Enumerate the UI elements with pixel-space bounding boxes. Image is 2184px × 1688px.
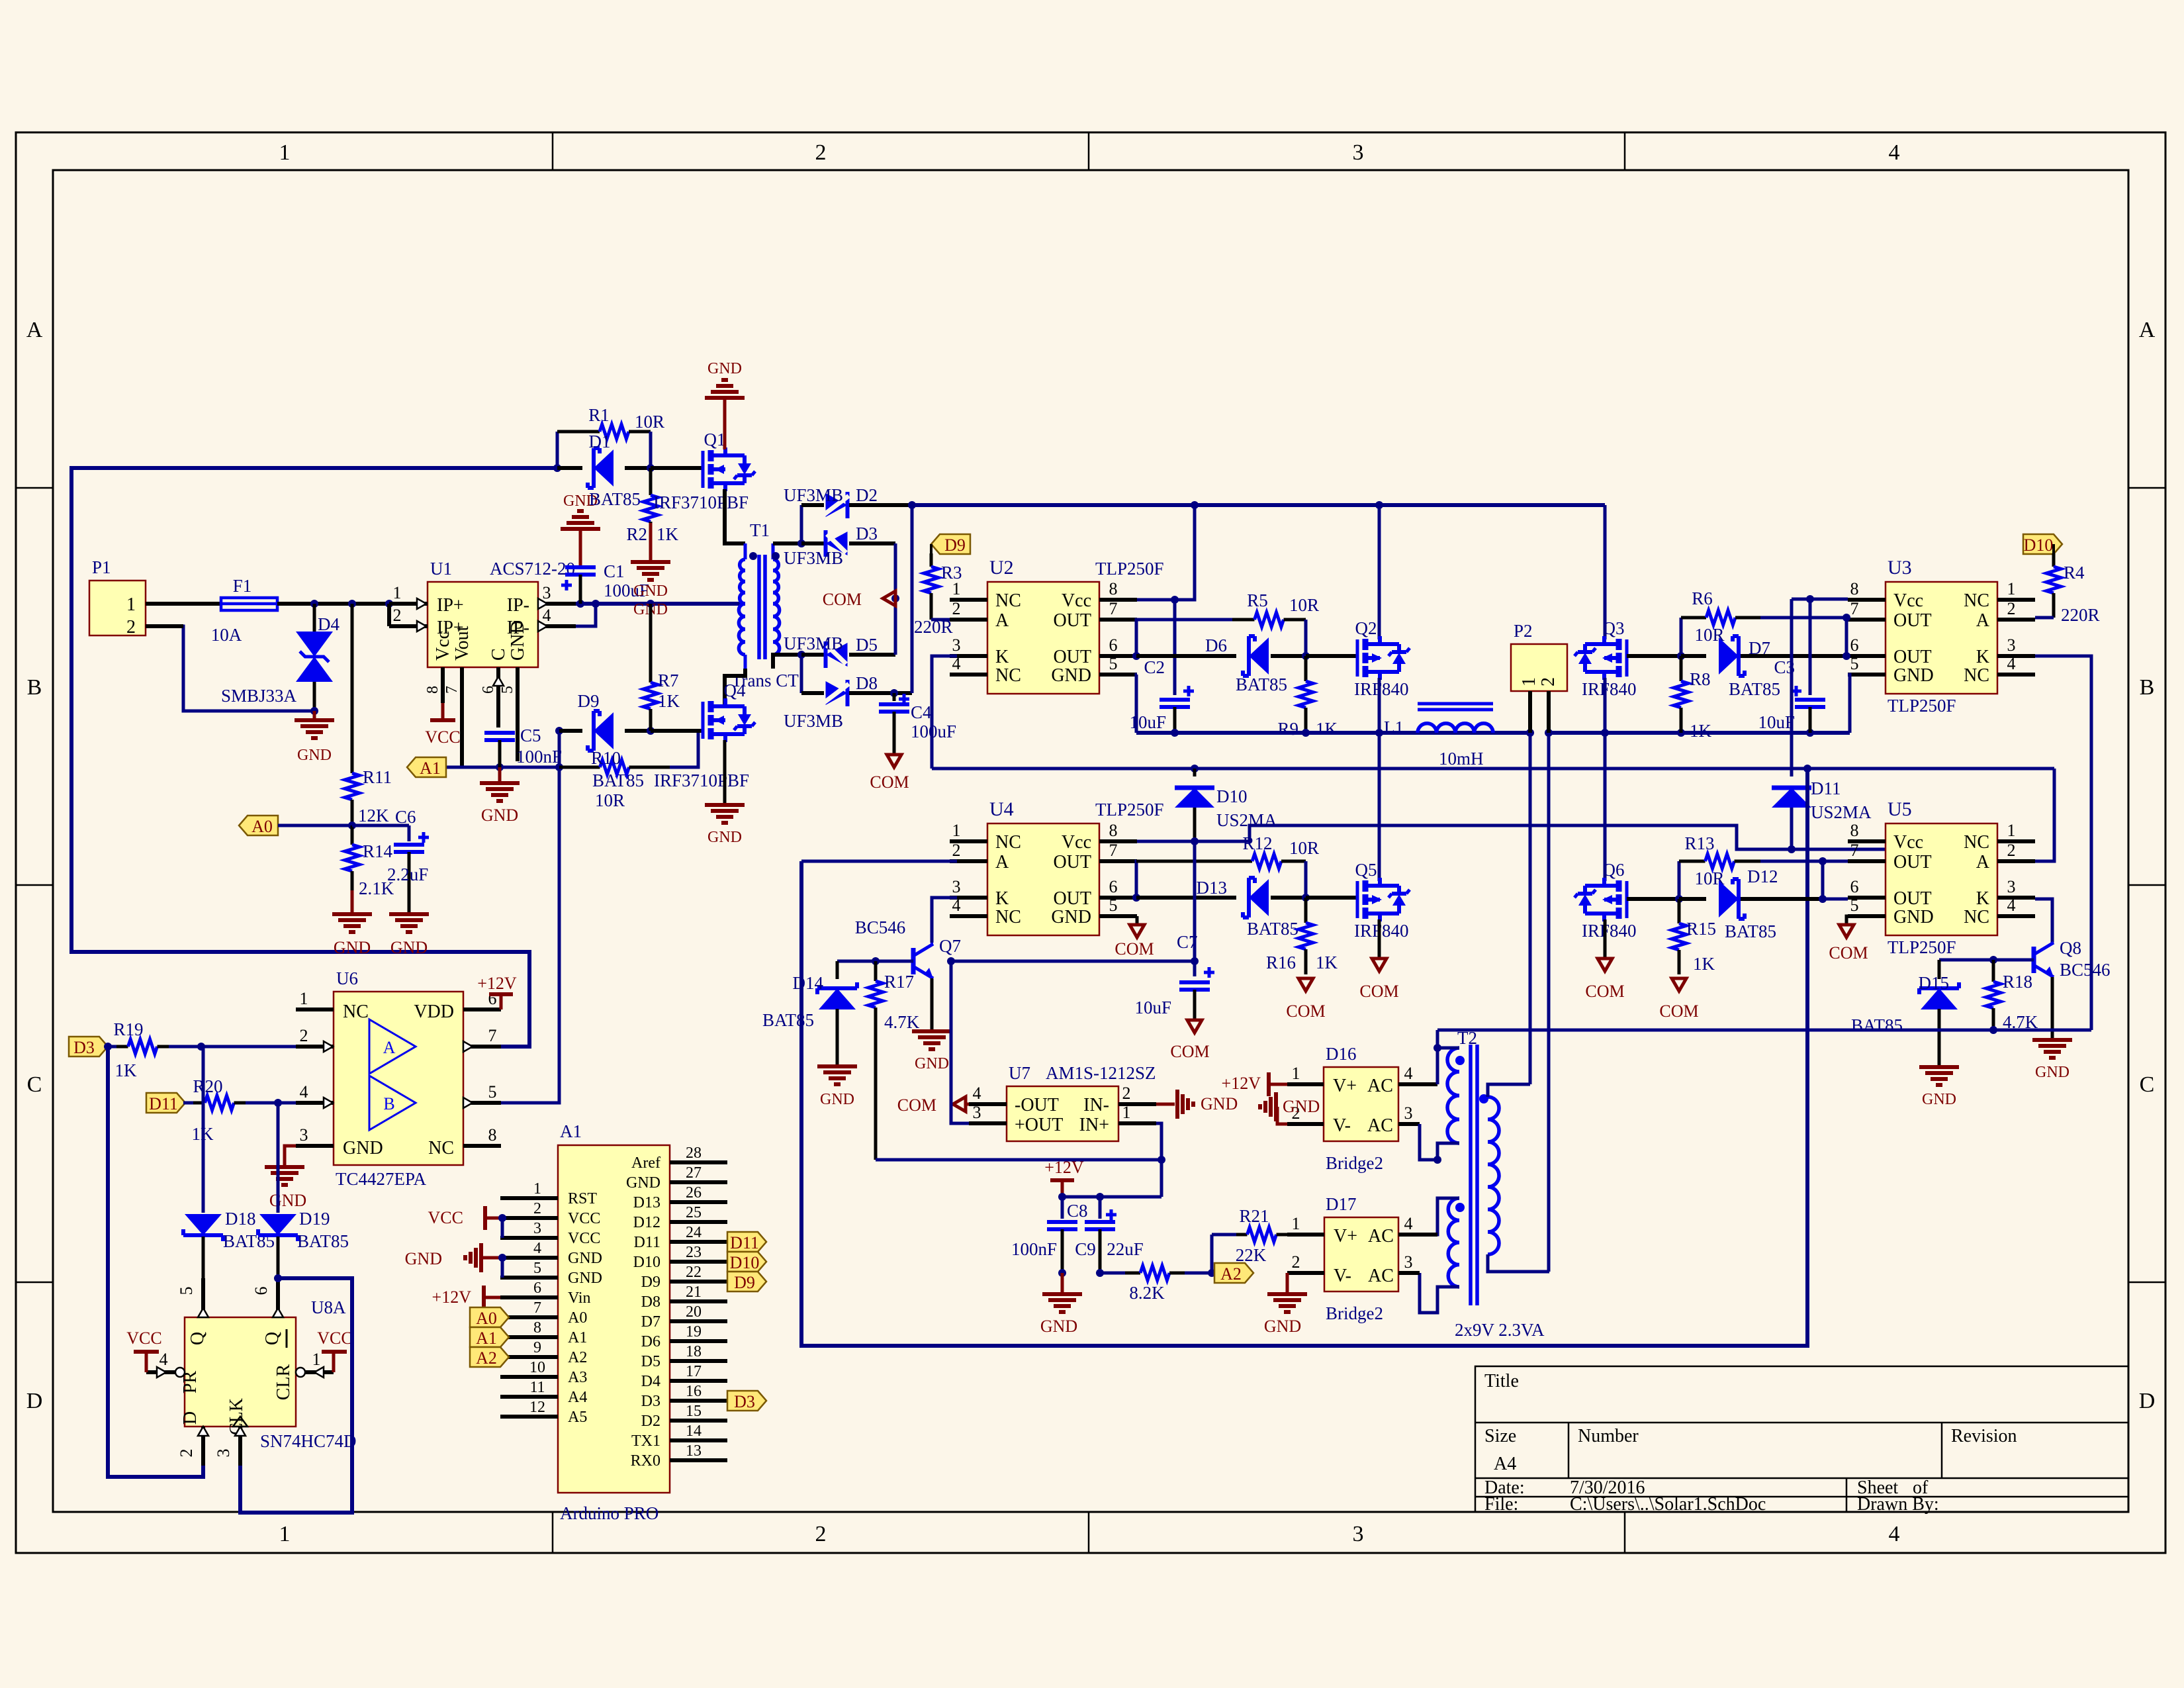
svg-text:L1: L1: [1384, 718, 1404, 737]
GND at D16 pin2: [1260, 1092, 1320, 1124]
svg-text:10uF: 10uF: [1758, 712, 1795, 732]
resistor R7: [643, 604, 680, 731]
svg-text:F1: F1: [233, 576, 252, 596]
net flag D10: [2023, 534, 2062, 555]
svg-text:Vcc: Vcc: [1062, 832, 1091, 853]
svg-text:U1: U1: [430, 559, 452, 579]
svg-text:7: 7: [1850, 599, 1859, 618]
svg-text:TLP250F: TLP250F: [1888, 696, 1956, 716]
connector P1: [89, 557, 146, 637]
svg-text:Vcc: Vcc: [1893, 832, 1923, 853]
resistor R11: [345, 604, 392, 825]
svg-text:Q4: Q4: [724, 680, 746, 700]
inductor L1: [1384, 704, 1493, 769]
resistor R19: [108, 1019, 296, 1080]
svg-text:A2: A2: [476, 1348, 497, 1368]
svg-text:A3: A3: [568, 1369, 587, 1386]
svg-text:1K: 1K: [115, 1060, 138, 1080]
svg-text:Vout: Vout: [452, 626, 473, 661]
svg-text:U6: U6: [336, 968, 358, 988]
svg-text:24: 24: [686, 1224, 702, 1241]
svg-text:19: 19: [686, 1323, 702, 1340]
svg-text:1: 1: [126, 594, 136, 615]
diode D3 UF3MB: [784, 524, 895, 568]
op-amp U3 TLP250F: [1848, 557, 2035, 716]
svg-text:D9: D9: [944, 536, 966, 555]
svg-text:100nF: 100nF: [516, 747, 562, 767]
svg-text:C4: C4: [911, 702, 932, 722]
svg-text:2: 2: [952, 599, 961, 618]
svg-text:A: A: [995, 852, 1009, 872]
svg-text:COM: COM: [897, 1096, 936, 1115]
svg-text:2.2uF: 2.2uF: [387, 865, 428, 884]
svg-text:C: C: [488, 648, 509, 661]
diode D13 BAT85: [1136, 878, 1306, 939]
resistor R12: [1136, 833, 1319, 868]
svg-text:T1: T1: [750, 520, 770, 540]
svg-text:R11: R11: [363, 767, 392, 787]
wire U2 pin5 elbow: [1136, 675, 1137, 733]
svg-text:GND: GND: [568, 1270, 602, 1287]
svg-text:A1: A1: [568, 1329, 587, 1346]
net flag A0 at pin7: [470, 1307, 509, 1328]
wire Q2 drain from rail: [1378, 505, 1381, 639]
wire Q6 gate: [1627, 895, 1683, 903]
svg-text:TX1: TX1: [631, 1432, 660, 1450]
resistor R13: [1679, 833, 1823, 899]
svg-text:D14: D14: [793, 973, 824, 993]
svg-text:A4: A4: [1494, 1454, 1516, 1474]
svg-text:Revision: Revision: [1951, 1426, 2017, 1446]
wire main positive rail: [912, 501, 1605, 509]
diode D12 BAT85: [1679, 867, 1823, 941]
svg-text:D15: D15: [1919, 973, 1950, 993]
svg-text:2: 2: [177, 1449, 196, 1458]
svg-text:A: A: [1976, 852, 1990, 872]
svg-text:D13: D13: [633, 1194, 660, 1211]
svg-text:U4: U4: [989, 798, 1014, 820]
svg-text:D12: D12: [1747, 867, 1778, 886]
svg-text:3: 3: [300, 1125, 308, 1145]
svg-text:4: 4: [2007, 896, 2016, 915]
svg-text:R18: R18: [2003, 972, 2032, 992]
svg-text:10R: 10R: [1289, 838, 1319, 858]
wire Q4 source to GND: [723, 740, 727, 803]
svg-text:15: 15: [686, 1403, 702, 1420]
svg-text:2: 2: [952, 841, 961, 860]
op-amp U5 TLP250F: [1848, 798, 2035, 957]
wire U3 pin8 Vcc: [1792, 595, 1848, 603]
op-amp U2 TLP250F: [950, 557, 1164, 694]
+12V at Arduino pin 6: [432, 1286, 500, 1309]
svg-text:GND: GND: [1051, 907, 1091, 927]
svg-text:GND: GND: [820, 1091, 854, 1108]
svg-text:GND: GND: [1201, 1094, 1238, 1113]
wire Q1 source to T1: [725, 489, 745, 543]
svg-text:C2: C2: [1144, 657, 1165, 677]
resistor R16: [1266, 898, 1338, 974]
wire T1 right to D2 line: [800, 505, 803, 543]
wire U4 pin2 A from loop: [801, 860, 957, 863]
svg-text:BAT85: BAT85: [297, 1231, 349, 1251]
svg-text:GND: GND: [508, 620, 528, 661]
svg-text:5: 5: [1109, 896, 1118, 915]
svg-text:4: 4: [2007, 654, 2016, 673]
resistor R20: [183, 1076, 296, 1144]
svg-text:COM: COM: [1585, 982, 1624, 1001]
wire Q7 collector: [931, 943, 933, 944]
svg-text:8: 8: [424, 686, 441, 694]
svg-text:NC: NC: [995, 665, 1021, 686]
svg-text:2: 2: [1122, 1084, 1131, 1103]
svg-text:GND: GND: [707, 829, 742, 846]
svg-text:RX0: RX0: [631, 1452, 660, 1470]
svg-text:2: 2: [393, 606, 402, 625]
svg-text:8: 8: [488, 1125, 497, 1145]
svg-text:R15: R15: [1686, 919, 1716, 939]
svg-text:5: 5: [499, 686, 516, 694]
svg-text:BAT85: BAT85: [1236, 675, 1287, 694]
svg-text:3: 3: [1353, 140, 1364, 165]
svg-text:10mH: 10mH: [1439, 749, 1484, 769]
capacitor C3 10uF: [1758, 599, 1825, 733]
svg-text:1: 1: [1519, 677, 1539, 686]
svg-text:IN+: IN+: [1079, 1115, 1109, 1135]
wire U5 pin6 stub join: [1823, 898, 1848, 901]
wire source rail left: [1136, 729, 1534, 737]
capacitor C5 100nF: [484, 726, 562, 767]
svg-text:D8: D8: [856, 673, 878, 693]
svg-text:D13: D13: [1197, 878, 1228, 898]
wire A1-C5 node: [446, 763, 559, 771]
svg-text:R5: R5: [1247, 590, 1268, 610]
svg-text:NC: NC: [428, 1138, 454, 1158]
net flag A1 at pin8: [470, 1327, 509, 1348]
svg-text:D18: D18: [225, 1209, 256, 1229]
resistor R5: [1136, 590, 1319, 627]
wire left loop (U6 pin7 to Q1 network): [71, 468, 557, 1047]
svg-text:U7: U7: [1009, 1063, 1030, 1083]
svg-text:+12V: +12V: [1222, 1074, 1261, 1093]
wire U6 pin5 riser: [501, 763, 563, 1103]
svg-text:2: 2: [2007, 841, 2016, 860]
resistor R17: [868, 961, 920, 1160]
svg-text:21: 21: [686, 1284, 702, 1301]
svg-text:D11: D11: [634, 1234, 660, 1251]
svg-text:IRF840: IRF840: [1354, 679, 1409, 699]
svg-text:GND: GND: [405, 1249, 442, 1268]
svg-text:R9: R9: [1277, 719, 1298, 739]
junction D1-R2: [647, 464, 655, 472]
svg-text:A: A: [2139, 318, 2156, 342]
junction node main wire: [553, 464, 561, 472]
wire U3 pin5 elbow: [1848, 675, 1850, 733]
wire U5 pins7-6 tie: [1819, 857, 1827, 903]
svg-text:GND: GND: [2035, 1064, 2070, 1081]
svg-text:Q8: Q8: [2060, 938, 2081, 958]
svg-text:GND: GND: [633, 583, 668, 600]
svg-text:TLP250F: TLP250F: [1888, 937, 1956, 957]
svg-text:8: 8: [1109, 579, 1118, 598]
wire T1 left bottom to Q4: [725, 669, 745, 704]
svg-text:VCC: VCC: [425, 727, 460, 747]
svg-text:6: 6: [1109, 877, 1118, 896]
net flag D3 at pin16: [727, 1391, 766, 1411]
fuse F1: [211, 576, 277, 645]
wire Q3 gate: [1627, 652, 1685, 660]
svg-text:7: 7: [1850, 841, 1859, 860]
svg-text:D2: D2: [856, 485, 878, 505]
wire U1 pins 3-4 to T1 tap: [576, 600, 745, 626]
svg-text:Q: Q: [262, 1332, 283, 1345]
COM node D3-D5: [823, 543, 899, 655]
svg-text:12: 12: [529, 1399, 545, 1416]
svg-text:10R: 10R: [1289, 595, 1319, 615]
svg-text:U5: U5: [1888, 798, 1912, 820]
svg-text:COM: COM: [1286, 1002, 1325, 1021]
wire T2 left top loop: [1433, 1030, 1459, 1052]
svg-text:GND: GND: [334, 938, 371, 957]
svg-text:1: 1: [279, 140, 291, 165]
svg-text:AC: AC: [1368, 1266, 1394, 1286]
ground below C8: [1040, 1273, 1082, 1336]
svg-text:IRF3710PBF: IRF3710PBF: [654, 771, 749, 790]
svg-text:SN74HC74D: SN74HC74D: [260, 1431, 357, 1451]
transistor Q7 BC546: [855, 917, 961, 978]
svg-text:Vcc: Vcc: [1062, 590, 1091, 611]
svg-text:R8: R8: [1690, 669, 1711, 689]
svg-text:10A: 10A: [211, 625, 242, 645]
svg-text:4: 4: [533, 1240, 541, 1257]
svg-text:OUT: OUT: [1053, 647, 1091, 667]
wire fuse to U1: [277, 600, 393, 608]
svg-text:D9: D9: [641, 1274, 660, 1291]
svg-text:4: 4: [300, 1082, 308, 1102]
svg-text:U2: U2: [989, 557, 1014, 579]
svg-text:OUT: OUT: [1053, 888, 1091, 909]
svg-text:Q: Q: [187, 1332, 208, 1345]
wire D16 pin3 to T2: [1420, 1124, 1437, 1160]
svg-text:BAT85: BAT85: [589, 489, 641, 509]
COM below Q6: [1585, 919, 1624, 1001]
diode D15 BAT85: [1851, 960, 1959, 1065]
ground below R14: [332, 890, 372, 957]
net flag A0: [239, 816, 356, 836]
svg-text:D: D: [2139, 1389, 2156, 1413]
svg-text:R19: R19: [113, 1019, 143, 1039]
svg-text:Vcc: Vcc: [433, 631, 453, 661]
wire Q6 drain: [1604, 880, 1606, 881]
wire D2-D8 vertical: [911, 505, 914, 693]
svg-text:Q2: Q2: [1355, 618, 1377, 638]
svg-text:Q7: Q7: [939, 936, 961, 956]
ground below Q8: [2032, 1040, 2072, 1081]
svg-text:A: A: [1976, 610, 1990, 631]
svg-text:A2: A2: [568, 1349, 587, 1366]
op-amp U4 TLP250F: [950, 798, 1164, 935]
svg-text:C: C: [27, 1072, 42, 1097]
svg-text:3: 3: [973, 1103, 981, 1122]
diode D6 BAT85: [1136, 635, 1306, 694]
svg-text:IP-: IP-: [507, 595, 529, 616]
svg-text:2: 2: [1292, 1252, 1300, 1272]
COM below U5 pin5: [1829, 916, 1868, 962]
svg-text:D7: D7: [1749, 638, 1770, 658]
transformer T1 Trans CT: [731, 520, 799, 690]
wire P1 pin2 down: [146, 626, 314, 711]
svg-text:GND: GND: [707, 360, 742, 377]
svg-text:NC: NC: [1964, 590, 1989, 611]
svg-text:A1: A1: [476, 1329, 497, 1348]
svg-text:D8: D8: [641, 1293, 660, 1311]
wire U4 pin8 Vcc rail: [1137, 825, 1886, 849]
svg-text:UF3MB: UF3MB: [784, 633, 843, 653]
svg-text:D9: D9: [578, 691, 600, 711]
svg-text:7: 7: [443, 686, 461, 694]
COM below R16: [1286, 978, 1325, 1021]
svg-text:D2: D2: [641, 1413, 660, 1430]
svg-text:23: 23: [686, 1244, 702, 1261]
svg-text:COM: COM: [1170, 1042, 1209, 1061]
svg-text:5: 5: [1850, 654, 1859, 673]
svg-text:COM: COM: [870, 773, 909, 792]
TVS diode D4: [221, 604, 340, 715]
svg-text:P1: P1: [92, 557, 111, 577]
+12V at U6 pin6: [477, 974, 517, 1009]
diode D19 BAT85: [258, 1103, 349, 1278]
svg-text:1: 1: [393, 583, 402, 602]
svg-text:1: 1: [533, 1180, 541, 1197]
svg-text:CLR: CLR: [273, 1364, 294, 1400]
net flag D11 at pin24: [727, 1232, 766, 1252]
svg-text:GND: GND: [1893, 907, 1934, 927]
svg-text:8: 8: [533, 1319, 541, 1336]
svg-text:13: 13: [686, 1442, 702, 1460]
svg-text:D3: D3: [734, 1392, 755, 1411]
svg-text:2: 2: [1538, 677, 1559, 686]
svg-text:NC: NC: [1964, 665, 1989, 686]
resistor R14: [345, 825, 394, 898]
svg-text:C:\Users\..\Solar1.SchDoc: C:\Users\..\Solar1.SchDoc: [1570, 1494, 1766, 1515]
ground below C5: [480, 767, 520, 825]
svg-text:OUT: OUT: [1053, 852, 1091, 872]
svg-text:10R: 10R: [635, 412, 664, 432]
svg-text:D11: D11: [730, 1233, 759, 1252]
wire U3 pins7-6 tie: [1843, 614, 1850, 660]
svg-text:C7: C7: [1177, 932, 1198, 952]
capacitor C8 100nF: [1011, 1197, 1088, 1277]
GND at U7 pin2: [1156, 1090, 1238, 1119]
svg-text:22: 22: [686, 1264, 702, 1281]
wire T2 top rail: [1437, 1026, 2091, 1034]
svg-text:A: A: [26, 318, 43, 342]
capacitor C2 10uF: [1129, 600, 1194, 737]
svg-text:2x9V 2.3VA: 2x9V 2.3VA: [1455, 1320, 1545, 1340]
svg-text:BAT85: BAT85: [1851, 1015, 1903, 1035]
svg-text:4: 4: [1889, 140, 1900, 165]
diode D14 BAT85: [762, 961, 857, 1064]
svg-text:2: 2: [2007, 599, 2016, 618]
svg-text:R10: R10: [591, 748, 621, 768]
svg-text:C5: C5: [520, 726, 541, 745]
wire to Q5 gate: [1306, 896, 1357, 900]
svg-text:10: 10: [529, 1359, 545, 1376]
wire T1 right top lead: [773, 539, 805, 547]
svg-text:6: 6: [1850, 635, 1859, 655]
svg-text:Arduino PRO: Arduino PRO: [560, 1503, 659, 1523]
svg-text:D: D: [26, 1389, 43, 1413]
svg-text:A1: A1: [560, 1121, 582, 1141]
wire R3 to U2 pin2: [931, 618, 957, 622]
svg-text:IRF840: IRF840: [1582, 679, 1637, 699]
svg-text:28: 28: [686, 1145, 702, 1162]
wire gate network left: [558, 731, 561, 767]
svg-text:R4: R4: [2064, 563, 2085, 583]
resistor R1: [557, 405, 664, 468]
svg-text:D4: D4: [318, 614, 340, 634]
svg-text:Bridge2: Bridge2: [1326, 1303, 1383, 1323]
svg-text:3: 3: [1404, 1103, 1413, 1123]
connector P2: [1511, 621, 1567, 691]
svg-text:4: 4: [1404, 1064, 1413, 1083]
svg-text:R20: R20: [193, 1076, 222, 1096]
junction R7-D9: [647, 727, 655, 735]
svg-text:A2: A2: [1220, 1264, 1242, 1284]
svg-text:BAT85: BAT85: [1247, 919, 1298, 939]
svg-text:8: 8: [1850, 821, 1859, 840]
wire T2 left lower top: [1398, 1198, 1459, 1235]
net flag D11 input: [146, 1093, 185, 1113]
svg-text:7: 7: [488, 1026, 497, 1045]
svg-text:7: 7: [533, 1299, 541, 1317]
COM at U7 pin4: [897, 1096, 969, 1115]
GND at U6 pin3: [265, 1146, 306, 1210]
svg-text:D5: D5: [856, 635, 878, 655]
svg-text:16: 16: [686, 1383, 702, 1400]
resistor R3: [914, 553, 962, 637]
svg-text:IP+: IP+: [437, 595, 464, 616]
net flag D3: [69, 1037, 112, 1057]
svg-text:BC546: BC546: [855, 917, 906, 937]
junction R19-D18: [197, 1043, 205, 1051]
svg-text:4: 4: [543, 606, 551, 625]
resistor R9: [1277, 656, 1338, 739]
wire source rail right: [1545, 729, 1850, 737]
svg-text:AM1S-1212SZ: AM1S-1212SZ: [1046, 1063, 1156, 1083]
svg-text:6: 6: [480, 686, 497, 694]
svg-text:3: 3: [533, 1220, 541, 1237]
wire T2 left lower bottom: [1420, 1273, 1459, 1313]
wire U4 pin3 K to Q7: [932, 898, 957, 943]
+12V at D16 pin1: [1222, 1072, 1287, 1096]
wire rail down to Q3 drain: [1604, 505, 1607, 639]
svg-text:3: 3: [952, 635, 961, 655]
wire U7 pin1 to +12V node: [1156, 1123, 1161, 1197]
wire T1 right bottom lead: [773, 651, 805, 669]
svg-text:20: 20: [686, 1303, 702, 1321]
svg-text:Vin: Vin: [568, 1289, 591, 1307]
svg-text:AC: AC: [1368, 1226, 1394, 1246]
svg-text:NC: NC: [995, 590, 1021, 611]
svg-text:D10: D10: [1216, 786, 1248, 806]
resistor R15: [1672, 899, 1716, 974]
svg-text:A: A: [383, 1038, 396, 1057]
svg-text:1: 1: [300, 989, 308, 1008]
svg-text:A1: A1: [420, 759, 441, 778]
svg-text:Size: Size: [1484, 1426, 1516, 1446]
svg-text:2: 2: [815, 140, 827, 165]
svg-text:V-: V-: [1333, 1115, 1351, 1136]
